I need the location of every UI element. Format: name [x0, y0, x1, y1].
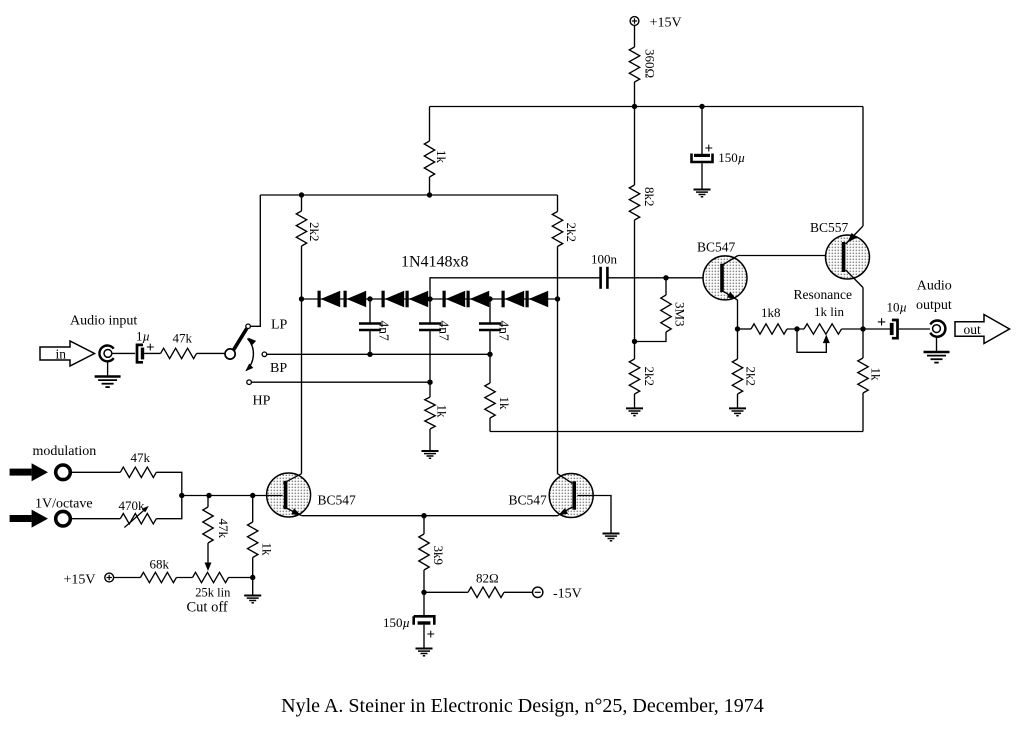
wire 1k fixed to pot node	[252, 558, 254, 578]
resistor 3k9	[419, 516, 446, 570]
junction 2k2 left/node row	[299, 192, 304, 197]
wire 47k to switch pole	[197, 352, 226, 354]
modulation connector ring	[56, 465, 71, 480]
resistor 2k2 buffer emitter	[732, 329, 758, 394]
svg-text:360Ω: 360Ω	[643, 49, 658, 78]
capacitor 4n7 third	[479, 299, 512, 354]
wire 1k HP to ground	[429, 429, 431, 451]
junction emitter/1k8	[735, 326, 740, 331]
svg-text:4n7: 4n7	[377, 321, 392, 342]
wire feedback horizontal	[490, 431, 863, 433]
input jack	[99, 346, 113, 362]
junction -15V node	[421, 590, 426, 595]
ground HP 1k	[422, 450, 439, 452]
wire buffer collector to BC557 base	[738, 255, 841, 257]
svg-text:4n7: 4n7	[497, 321, 512, 342]
junction chain node C	[487, 296, 492, 301]
power terminal +15V cutoff	[64, 572, 114, 587]
wire HP bus	[251, 381, 430, 383]
svg-text:Resonance: Resonance	[794, 287, 852, 302]
svg-text:470k: 470k	[119, 498, 146, 513]
svg-text:25k lin: 25k lin	[195, 585, 231, 599]
svg-text:1k: 1k	[869, 368, 884, 382]
svg-text:Cut off: Cut off	[187, 599, 228, 615]
junction chain node B	[427, 296, 432, 301]
switch lever	[234, 329, 247, 350]
wire 47k mod to join	[156, 472, 182, 495]
switch pole	[225, 349, 235, 359]
svg-text:1k: 1k	[260, 543, 275, 557]
junction 1k/node row	[427, 192, 432, 197]
svg-text:+15V: +15V	[64, 572, 96, 587]
svg-text:3M3: 3M3	[673, 302, 688, 327]
wire node to 82ohm	[424, 591, 468, 593]
capacitor 4n7 second	[419, 299, 452, 382]
svg-text:82Ω: 82Ω	[476, 570, 499, 585]
wire 150u to ground	[701, 163, 703, 189]
wire base row	[182, 495, 283, 497]
junction 3k9 top	[421, 513, 426, 518]
wire feedback down	[862, 393, 864, 432]
junction mod join	[179, 493, 184, 498]
wire pot to output node	[842, 328, 864, 330]
wire 360ohm to rail	[634, 82, 636, 107]
wire chain right to diff collector	[557, 299, 559, 474]
resistor 2k2 right	[552, 195, 579, 247]
svg-text:150µ: 150µ	[383, 615, 410, 630]
svg-text:output: output	[916, 298, 952, 313]
wire mod to 47k	[72, 471, 120, 473]
out arrow	[955, 315, 1010, 344]
resistor 1k HP	[425, 382, 450, 429]
wire 1u to 47k	[144, 352, 160, 354]
wire LP drop	[250, 195, 260, 326]
svg-text:1k: 1k	[497, 397, 512, 411]
svg-text:BP: BP	[270, 361, 287, 376]
svg-text:68k: 68k	[150, 557, 170, 572]
wire 68k to pot	[176, 577, 192, 579]
wire 1k to node row	[429, 177, 431, 195]
wire to ground	[737, 394, 739, 408]
ground input jack	[95, 375, 121, 378]
svg-text:Audio input: Audio input	[70, 314, 137, 329]
junction chain right	[555, 296, 560, 301]
wire 150u to ground	[423, 625, 425, 648]
svg-text:1k: 1k	[434, 150, 449, 164]
svg-text:modulation: modulation	[33, 444, 97, 459]
svg-text:out: out	[964, 322, 982, 337]
1V/octave connector ring	[56, 511, 71, 526]
switch contact BP	[262, 352, 267, 357]
svg-text:47k: 47k	[216, 519, 231, 539]
capacitor 4n7 first	[359, 299, 392, 354]
svg-text:47k: 47k	[131, 450, 151, 465]
svg-text:BC557: BC557	[810, 220, 849, 235]
wire 82ohm to -15V	[504, 591, 532, 593]
junction chain left	[299, 296, 304, 301]
diode D5	[443, 291, 446, 308]
resistor 8k2	[629, 107, 657, 221]
diode D4	[406, 291, 409, 308]
capacitor 1u input	[136, 329, 155, 363]
ground right base	[603, 533, 620, 535]
ground output jack	[924, 351, 950, 354]
junction 1k8/pot/wiper	[794, 326, 799, 331]
capacitor 150u top	[692, 107, 746, 166]
resistor 68k	[140, 557, 176, 583]
junction BP/4n7 third	[487, 352, 492, 357]
wire 8k2 down to 3M3 jog	[634, 220, 636, 342]
cutoff wiper arrow	[205, 563, 212, 572]
resistor 3M3	[661, 278, 688, 332]
resistor 1k feedback	[485, 354, 512, 418]
output jack	[930, 321, 945, 337]
wire 100n to buffer base	[607, 277, 717, 279]
wire rail to R 1k top	[429, 107, 431, 142]
svg-text:BC547: BC547	[509, 493, 548, 508]
resistor 1k top	[424, 141, 449, 177]
wire chain left to diff collector	[301, 299, 303, 474]
wire 470k to join	[156, 496, 182, 519]
junction 47k cutoff top	[206, 493, 211, 498]
wire 1V to 470k	[72, 518, 120, 520]
wire buffer emitter down	[737, 300, 739, 329]
ground buffer emitter	[729, 407, 746, 409]
svg-text:1V/octave: 1V/octave	[35, 497, 93, 512]
potentiometer 25k lin	[193, 572, 232, 599]
switch contact LP	[246, 324, 251, 329]
wire right base to ground	[578, 496, 612, 534]
wire rail to BC557 emitter	[862, 107, 864, 227]
svg-text:LP: LP	[271, 318, 288, 333]
power terminal -15V	[533, 587, 582, 602]
ground 150u bottom	[416, 648, 433, 650]
wire pot to ground node	[229, 577, 253, 579]
junction 3M3 top	[663, 275, 668, 280]
wire 47k to wiper arrow	[207, 543, 209, 563]
resistor 1k8	[738, 305, 788, 334]
wire 1k8 to pot	[787, 328, 804, 330]
junction chain node A	[367, 296, 372, 301]
wire 2k2 right to diode chain	[557, 247, 559, 300]
svg-text:8k2: 8k2	[642, 187, 657, 207]
resistor 2k2 left	[296, 195, 322, 246]
resistor 47k cutoff	[203, 496, 231, 544]
svg-text:4n7: 4n7	[437, 321, 452, 342]
wire chain mid to 100n	[430, 278, 600, 299]
wire diff emitter bus	[302, 515, 558, 517]
svg-text:HP: HP	[253, 394, 271, 409]
svg-text:3k9: 3k9	[431, 546, 446, 566]
wire +15V to 68k	[114, 577, 140, 579]
modulation arrow	[10, 463, 48, 481]
resistor 47k input	[161, 331, 197, 359]
wire diode chain	[302, 298, 558, 300]
transistor Q3 BC547 buffer	[697, 240, 747, 301]
svg-text:+: +	[877, 314, 886, 331]
transistor Q2 BC547 right	[509, 474, 594, 518]
transistor Q1 BC547 left	[267, 473, 356, 517]
diode D2	[344, 291, 347, 308]
svg-text:100n: 100n	[591, 252, 618, 267]
transistor Q4 BC557	[810, 220, 870, 288]
svg-text:10µ: 10µ	[887, 300, 908, 315]
wire positive rail	[430, 106, 864, 108]
svg-text:2k2: 2k2	[744, 367, 759, 387]
diode D8	[526, 291, 529, 308]
svg-text:1k: 1k	[435, 405, 450, 419]
resistor 360ohm	[629, 47, 657, 82]
wire 1k feedback to bus	[489, 418, 491, 432]
junction rail/8k2	[632, 104, 637, 109]
resistor 47k modulation	[120, 450, 156, 478]
svg-text:150µ: 150µ	[718, 150, 745, 165]
wire 2k2 left to diode chain	[301, 246, 303, 299]
diode D6	[467, 291, 470, 308]
svg-text:Audio: Audio	[917, 279, 952, 294]
junction output node	[860, 326, 865, 331]
junction pot/1k/ground	[250, 575, 255, 580]
capacitor 100n	[591, 252, 618, 289]
svg-text:Nyle A. Steiner in Electronic: Nyle A. Steiner in Electronic Design, n°…	[281, 695, 764, 717]
svg-text:+15V: +15V	[650, 16, 682, 31]
wire node row y195	[260, 194, 557, 196]
wire 3k9 to -15V node	[423, 570, 425, 592]
junction BP/4n7 first	[367, 352, 372, 357]
resistor 1k fixed	[248, 496, 275, 558]
resistor 2k2 below 8k2	[629, 342, 657, 395]
junction 1k fixed top	[250, 493, 255, 498]
svg-text:2k2: 2k2	[307, 222, 322, 242]
wire BP bus	[267, 353, 490, 355]
junction HP/1k	[427, 380, 432, 385]
wire 3M3 to jog	[635, 332, 667, 342]
svg-text:1k8: 1k8	[761, 305, 781, 320]
diode D7	[502, 291, 505, 308]
capacitor 10u output	[863, 300, 907, 339]
svg-text:in: in	[56, 347, 67, 362]
junction 8k2 line / 3M3 bottom	[632, 339, 637, 344]
switch contact HP	[247, 380, 252, 385]
svg-text:2k2: 2k2	[564, 223, 579, 243]
svg-text:BC547: BC547	[697, 240, 736, 255]
resistor 82ohm	[468, 570, 504, 597]
diode D3	[382, 291, 385, 308]
diode D1	[318, 291, 321, 308]
wire jack to ground	[936, 337, 938, 352]
in arrow	[40, 341, 95, 366]
resistor 470k variable	[119, 498, 157, 528]
label Audio output	[916, 279, 952, 313]
svg-text:BC547: BC547	[318, 493, 357, 508]
junction rail/150u	[699, 104, 704, 109]
svg-text:-15V: -15V	[553, 587, 582, 602]
ground 150u top	[694, 189, 711, 191]
wire +15V to R 360ohm	[634, 26, 636, 47]
wire BC557 collector to output node	[862, 288, 864, 330]
svg-text:1N4148x8: 1N4148x8	[401, 254, 469, 271]
ground cutoff	[244, 595, 261, 597]
switch arc	[245, 338, 256, 372]
capacitor 150u bottom	[383, 592, 435, 643]
wire 2k2 to ground	[634, 394, 636, 408]
wire jack to 1u	[111, 352, 135, 354]
1V/octave arrow	[10, 510, 48, 528]
svg-text:2k2: 2k2	[642, 367, 657, 387]
potentiometer 1k lin	[797, 304, 844, 352]
wire jack to ground	[107, 361, 109, 376]
svg-text:47k: 47k	[173, 331, 193, 346]
resistor 1k output node	[858, 329, 884, 393]
svg-text:+: +	[705, 141, 714, 157]
wire to ground	[252, 578, 254, 596]
wire 10u to output jack	[899, 328, 930, 330]
svg-text:1k lin: 1k lin	[814, 304, 844, 319]
svg-text:+: +	[427, 627, 436, 643]
ground below 8k2 line	[626, 407, 643, 409]
power terminal +15V	[630, 16, 682, 31]
